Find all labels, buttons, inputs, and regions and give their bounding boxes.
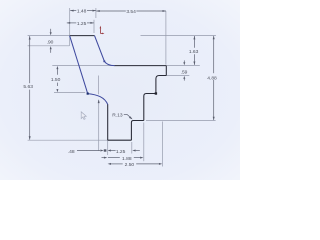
dimension .90: [50, 29, 52, 53]
extension line y=92.6 (1.50 bottom ref): [54, 92, 85, 94]
top-right horizontal edge y=65.6: [114, 65, 166, 67]
extension line x=165.9 (3.54 right ref): [165, 11, 167, 65]
svg-text:1.63: 1.63: [189, 49, 199, 55]
svg-text:.90: .90: [47, 40, 54, 46]
dimension 1.88: [102, 157, 144, 159]
dimension 1.25 bottom: [108, 150, 140, 152]
dimension 4.88: [213, 36, 215, 120]
dimension 1.25 top: [67, 22, 94, 24]
extension line x=98.7 (.48 left ref, from arc down): [98, 100, 100, 151]
dimension .59: [183, 60, 185, 80]
left vertical edge x=107.7: [107, 104, 109, 140]
origin marker (red L arrows): [100, 26, 105, 35]
extension line x=107.7 (below bottom-left corner): [107, 140, 109, 155]
right slant line: [95, 36, 105, 62]
blue sketch entities: [70, 36, 115, 105]
small arrow on x=98.7 extension pointing up at arc: [98, 99, 100, 103]
extension line x=131.8 (below bottom-right corner): [131, 142, 133, 154]
extension line x=98.7 upper segment (above arc): [98, 76, 100, 95]
step edge y=75.5 with fillet down to x=155.9: [156, 76, 166, 94]
left slant line: [70, 36, 88, 94]
svg-text:1.50: 1.50: [51, 77, 61, 83]
dimension R.13 leader: [124, 114, 133, 119]
dimension 1.50: [56, 66, 58, 92]
svg-text:.48: .48: [68, 149, 75, 155]
extension line x=143.8 (1.88 right ref): [143, 123, 145, 162]
notch edge y=120.5 with R.13 corner arc: [131, 121, 143, 141]
extension line y=120.5 right of notch edge (4.88 bottom ref): [146, 120, 216, 122]
extension line left of top edge (y=35.6): [28, 35, 70, 37]
mouse cursor: [81, 112, 86, 120]
vertex dot at slant end: [87, 93, 89, 95]
step edge y=93.5 with fillet down to x=143.8: [144, 94, 156, 121]
svg-text:.59: .59: [181, 69, 188, 75]
svg-text:3.54: 3.54: [126, 9, 136, 15]
right vertical edge x=166.3: [165, 66, 167, 76]
extension line right of top edge (y=35.5): [141, 35, 216, 37]
extension line x=69.7 (left corner vertical): [69, 8, 71, 46]
right slant fillet to horizontal: [104, 61, 114, 65]
svg-text:1.25: 1.25: [116, 149, 126, 155]
dimension .48: [77, 149, 106, 151]
extension line y=65.6 left piece (1.50 top ref): [52, 65, 114, 67]
svg-text:4.88: 4.88: [207, 75, 217, 81]
extension line y=65.6 right of edge: [166, 65, 200, 67]
extension line left of bottom edge (y=140.2): [28, 139, 108, 141]
top edge: [70, 35, 95, 37]
svg-text:1.48: 1.48: [77, 9, 87, 15]
bottom edge: [108, 139, 132, 141]
dimension 5.63: [29, 36, 31, 140]
extension line y=75.5 right of edge: [166, 75, 189, 77]
extension line x=162.6 (2.50 right ref): [162, 122, 164, 167]
svg-text:1.25: 1.25: [77, 21, 87, 27]
part outline: dark edges: [70, 36, 167, 141]
svg-text:2.50: 2.50: [125, 162, 135, 168]
dimension 2.50: [108, 163, 163, 165]
bottom-left arc (slant end to left vertical): [88, 94, 108, 105]
dimension 3.54: [96, 10, 166, 12]
extension line y=45.8 (.90 bottom ref): [28, 45, 70, 47]
svg-text:5.63: 5.63: [23, 84, 33, 90]
extension line x=95.9 (1.48/3.54 shared ref): [95, 8, 97, 18]
corner junction dot at (155.9,93.5): [155, 92, 157, 94]
svg-text:R.13: R.13: [112, 113, 123, 119]
vertex dot at right slant end: [103, 60, 105, 62]
dimension 1.63: [193, 36, 195, 65]
dimension 1.48: [70, 10, 96, 12]
extension line x=94 (1.25 right ref): [93, 20, 95, 33]
svg-text:1.88: 1.88: [122, 156, 132, 162]
